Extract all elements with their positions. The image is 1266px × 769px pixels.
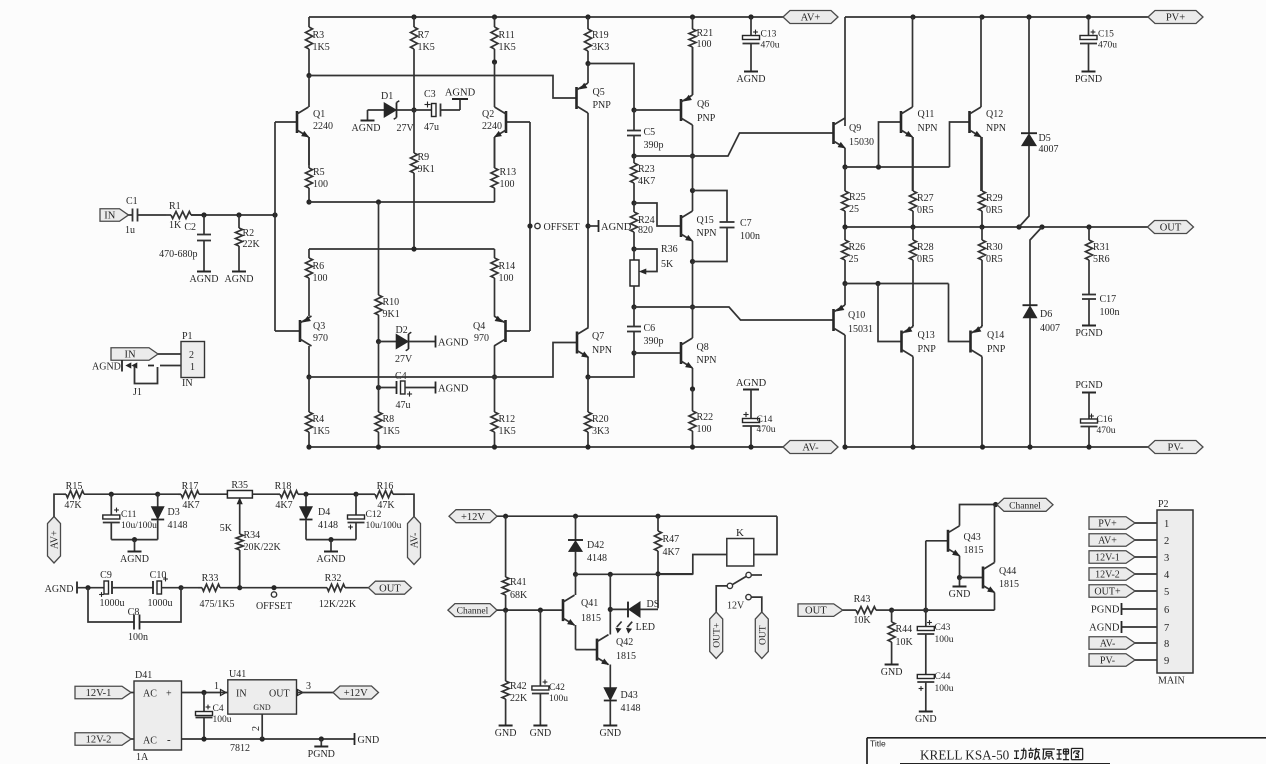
svg-text:U41: U41 bbox=[229, 669, 246, 680]
svg-text:AGND: AGND bbox=[737, 74, 766, 85]
svg-text:100: 100 bbox=[313, 273, 328, 284]
svg-text:10K: 10K bbox=[896, 637, 914, 648]
svg-text:PNP: PNP bbox=[697, 113, 716, 124]
svg-text:R34: R34 bbox=[244, 530, 261, 541]
svg-text:68K: 68K bbox=[510, 590, 528, 601]
svg-text:R41: R41 bbox=[510, 577, 527, 588]
svg-text:Q3: Q3 bbox=[313, 321, 325, 332]
svg-text:4148: 4148 bbox=[587, 553, 607, 564]
svg-text:0R5: 0R5 bbox=[986, 254, 1003, 265]
svg-text:Q7: Q7 bbox=[592, 331, 604, 342]
svg-text:C11: C11 bbox=[121, 510, 137, 520]
svg-text:C44: C44 bbox=[935, 672, 951, 682]
svg-text:R25: R25 bbox=[849, 192, 866, 203]
svg-text:22K: 22K bbox=[510, 693, 528, 704]
svg-text:12V-2: 12V-2 bbox=[1095, 570, 1120, 581]
svg-text:+: + bbox=[166, 689, 172, 700]
svg-text:Q11: Q11 bbox=[918, 109, 935, 120]
svg-text:R13: R13 bbox=[500, 167, 517, 178]
svg-text:PV+: PV+ bbox=[1166, 13, 1185, 24]
svg-text:1K5: 1K5 bbox=[313, 42, 330, 53]
svg-text:R15: R15 bbox=[66, 481, 83, 492]
svg-text:Channel: Channel bbox=[1009, 501, 1041, 511]
svg-text:47K: 47K bbox=[64, 500, 82, 511]
svg-text:R8: R8 bbox=[383, 414, 395, 425]
svg-text:1000u: 1000u bbox=[100, 598, 125, 609]
svg-text:GND: GND bbox=[949, 589, 971, 600]
svg-text:27V: 27V bbox=[397, 123, 415, 134]
svg-text:R6: R6 bbox=[313, 261, 325, 272]
svg-text:1815: 1815 bbox=[581, 613, 601, 624]
svg-text:OUT+: OUT+ bbox=[1094, 587, 1121, 598]
svg-text:OUT: OUT bbox=[379, 583, 401, 594]
svg-text:Channel: Channel bbox=[457, 607, 489, 617]
svg-text:OUT+: OUT+ bbox=[713, 623, 723, 648]
svg-text:AV-: AV- bbox=[1100, 639, 1116, 650]
svg-text:C13: C13 bbox=[761, 30, 777, 40]
svg-text:C1: C1 bbox=[126, 196, 138, 207]
svg-text:C16: C16 bbox=[1097, 415, 1113, 425]
svg-text:D5: D5 bbox=[1039, 133, 1051, 144]
svg-text:4007: 4007 bbox=[1039, 144, 1059, 155]
svg-text:D2: D2 bbox=[396, 325, 408, 336]
svg-text:LED: LED bbox=[636, 622, 655, 633]
svg-text:470u: 470u bbox=[1097, 426, 1116, 436]
svg-text:8: 8 bbox=[1164, 639, 1169, 650]
svg-text:0R5: 0R5 bbox=[986, 205, 1003, 216]
svg-text:OFFSET: OFFSET bbox=[256, 601, 292, 612]
svg-text:3: 3 bbox=[306, 681, 311, 692]
svg-text:R21: R21 bbox=[697, 28, 714, 39]
svg-text:5: 5 bbox=[1164, 587, 1169, 598]
svg-text:12V: 12V bbox=[727, 601, 745, 612]
svg-text:OFFSET: OFFSET bbox=[544, 222, 580, 233]
svg-text:R35: R35 bbox=[231, 480, 248, 491]
svg-text:AGND: AGND bbox=[45, 584, 74, 595]
svg-text:NPN: NPN bbox=[697, 355, 717, 366]
svg-text:AGND: AGND bbox=[736, 378, 767, 389]
svg-text:970: 970 bbox=[313, 333, 328, 344]
svg-text:D6: D6 bbox=[1040, 309, 1052, 320]
svg-text:Q12: Q12 bbox=[986, 109, 1003, 120]
svg-text:22K: 22K bbox=[243, 239, 261, 250]
svg-text:1u: 1u bbox=[125, 225, 135, 236]
svg-text:2240: 2240 bbox=[313, 121, 333, 132]
svg-text:GND: GND bbox=[915, 714, 937, 725]
svg-text:PGND: PGND bbox=[1075, 380, 1102, 391]
svg-text:470u: 470u bbox=[1098, 41, 1117, 51]
svg-text:100u: 100u bbox=[549, 694, 568, 704]
svg-text:AV+: AV+ bbox=[801, 13, 821, 24]
svg-text:7812: 7812 bbox=[230, 743, 250, 754]
svg-text:NPN: NPN bbox=[697, 228, 717, 239]
svg-text:1815: 1815 bbox=[999, 579, 1019, 590]
svg-text:IN: IN bbox=[104, 211, 115, 222]
svg-text:GND: GND bbox=[530, 728, 552, 739]
svg-text:1815: 1815 bbox=[616, 651, 636, 662]
svg-text:GND: GND bbox=[358, 735, 380, 746]
svg-text:AGND: AGND bbox=[92, 362, 121, 373]
svg-text:C15: C15 bbox=[1098, 30, 1114, 40]
svg-text:Q15: Q15 bbox=[697, 215, 714, 226]
svg-text:15031: 15031 bbox=[848, 324, 873, 335]
svg-text:3K3: 3K3 bbox=[592, 426, 609, 437]
svg-text:12V-1: 12V-1 bbox=[1095, 553, 1120, 564]
svg-text:D1: D1 bbox=[381, 91, 393, 102]
svg-text:Q10: Q10 bbox=[848, 310, 865, 321]
svg-text:1K: 1K bbox=[169, 220, 182, 231]
svg-text:12V-1: 12V-1 bbox=[86, 688, 112, 699]
svg-text:GND: GND bbox=[881, 667, 903, 678]
svg-text:C12: C12 bbox=[366, 510, 382, 520]
svg-text:4K7: 4K7 bbox=[275, 500, 292, 511]
svg-text:R32: R32 bbox=[325, 573, 342, 584]
svg-text:D4: D4 bbox=[318, 507, 330, 518]
svg-text:5K: 5K bbox=[220, 523, 233, 534]
svg-text:KRELL KSA-50: KRELL KSA-50 bbox=[920, 748, 1010, 763]
svg-text:2: 2 bbox=[1164, 536, 1169, 547]
svg-text:100n: 100n bbox=[740, 231, 760, 242]
svg-text:2: 2 bbox=[189, 350, 194, 361]
svg-text:R36: R36 bbox=[661, 244, 678, 255]
svg-text:4148: 4148 bbox=[168, 520, 188, 531]
svg-text:1815: 1815 bbox=[964, 545, 984, 556]
svg-text:D3: D3 bbox=[168, 507, 180, 518]
svg-text:12V-2: 12V-2 bbox=[86, 735, 112, 746]
svg-text:D43: D43 bbox=[621, 690, 638, 701]
svg-text:AV+: AV+ bbox=[1098, 536, 1117, 547]
svg-text:Q2: Q2 bbox=[482, 109, 494, 120]
svg-text:AGND: AGND bbox=[352, 123, 381, 134]
svg-text:970: 970 bbox=[474, 333, 489, 344]
svg-text:470u: 470u bbox=[757, 425, 776, 435]
svg-text:J1: J1 bbox=[133, 387, 142, 398]
svg-text:R11: R11 bbox=[499, 30, 515, 41]
svg-text:AGND: AGND bbox=[190, 274, 219, 285]
svg-text:390p: 390p bbox=[644, 336, 664, 347]
svg-text:R43: R43 bbox=[854, 594, 871, 605]
svg-text:25: 25 bbox=[849, 254, 859, 265]
svg-text:R16: R16 bbox=[377, 481, 394, 492]
svg-text:R42: R42 bbox=[510, 681, 527, 692]
svg-text:9: 9 bbox=[1164, 656, 1169, 667]
svg-text:AGND: AGND bbox=[438, 337, 469, 348]
svg-text:5R6: 5R6 bbox=[1093, 254, 1110, 265]
svg-text:27V: 27V bbox=[395, 354, 413, 365]
svg-text:R5: R5 bbox=[313, 167, 325, 178]
svg-text:AV-: AV- bbox=[410, 533, 421, 549]
svg-text:4: 4 bbox=[1164, 570, 1170, 581]
svg-text:4K7: 4K7 bbox=[182, 500, 199, 511]
svg-text:47u: 47u bbox=[396, 400, 411, 411]
svg-text:IN: IN bbox=[182, 378, 193, 389]
svg-text:R2: R2 bbox=[243, 228, 255, 239]
svg-text:PGND: PGND bbox=[1075, 74, 1102, 85]
svg-text:R29: R29 bbox=[986, 193, 1003, 204]
svg-text:PGND: PGND bbox=[1091, 605, 1120, 616]
svg-text:R4: R4 bbox=[313, 414, 325, 425]
svg-text:4148: 4148 bbox=[621, 703, 641, 714]
svg-text:C4: C4 bbox=[213, 704, 224, 714]
svg-text:100u: 100u bbox=[935, 684, 954, 694]
svg-text:R27: R27 bbox=[917, 193, 934, 204]
svg-text:R14: R14 bbox=[499, 261, 516, 272]
svg-text:470u: 470u bbox=[761, 41, 780, 51]
svg-text:C9: C9 bbox=[100, 570, 112, 581]
svg-text:4007: 4007 bbox=[1040, 323, 1060, 334]
svg-text:D42: D42 bbox=[587, 540, 604, 551]
svg-text:PNP: PNP bbox=[593, 100, 612, 111]
svg-text:4K7: 4K7 bbox=[663, 547, 680, 558]
svg-text:AV-: AV- bbox=[802, 443, 819, 454]
svg-text:R12: R12 bbox=[499, 414, 516, 425]
svg-text:Q6: Q6 bbox=[697, 99, 709, 110]
svg-text:1: 1 bbox=[190, 362, 195, 373]
svg-text:R30: R30 bbox=[986, 242, 1003, 253]
svg-text:C7: C7 bbox=[740, 218, 752, 229]
svg-text:1K5: 1K5 bbox=[383, 426, 400, 437]
svg-text:R17: R17 bbox=[182, 481, 199, 492]
svg-text:R47: R47 bbox=[663, 534, 680, 545]
svg-text:AGND: AGND bbox=[317, 554, 346, 565]
svg-text:AGND: AGND bbox=[438, 383, 469, 394]
svg-text:C8: C8 bbox=[128, 607, 140, 618]
svg-text:1K5: 1K5 bbox=[499, 42, 516, 53]
svg-text:-: - bbox=[167, 734, 171, 746]
svg-text:1A: 1A bbox=[136, 752, 149, 763]
svg-text:Q8: Q8 bbox=[697, 342, 709, 353]
svg-text:DS: DS bbox=[647, 599, 660, 610]
svg-text:OUT: OUT bbox=[805, 606, 827, 617]
svg-text:NPN: NPN bbox=[592, 345, 612, 356]
svg-text:R1: R1 bbox=[169, 201, 181, 212]
svg-text:R44: R44 bbox=[896, 624, 913, 635]
svg-text:R7: R7 bbox=[418, 30, 430, 41]
svg-text:Q9: Q9 bbox=[849, 123, 861, 134]
svg-text:3: 3 bbox=[1164, 553, 1169, 564]
svg-text:C14: C14 bbox=[757, 415, 773, 425]
svg-text:Q13: Q13 bbox=[918, 330, 935, 341]
svg-text:100u: 100u bbox=[935, 635, 954, 645]
svg-text:Q4: Q4 bbox=[473, 321, 485, 332]
svg-text:100u: 100u bbox=[213, 715, 232, 725]
svg-text:100: 100 bbox=[499, 273, 514, 284]
svg-text:R19: R19 bbox=[592, 30, 609, 41]
svg-text:C10: C10 bbox=[150, 570, 167, 581]
svg-text:OUT: OUT bbox=[269, 689, 290, 700]
svg-text:Q14: Q14 bbox=[987, 330, 1004, 341]
svg-text:1K5: 1K5 bbox=[418, 42, 435, 53]
svg-text:Q5: Q5 bbox=[593, 87, 605, 98]
svg-text:6: 6 bbox=[1164, 605, 1169, 616]
svg-text:100n: 100n bbox=[128, 632, 148, 643]
svg-text:47u: 47u bbox=[424, 122, 439, 133]
svg-text:12K/22K: 12K/22K bbox=[319, 599, 357, 610]
svg-text:AGND: AGND bbox=[445, 88, 476, 99]
svg-text:4K7: 4K7 bbox=[638, 176, 655, 187]
svg-text:PNP: PNP bbox=[987, 344, 1006, 355]
svg-text:R28: R28 bbox=[917, 242, 934, 253]
svg-text:AGND: AGND bbox=[225, 274, 254, 285]
svg-text:R9: R9 bbox=[418, 152, 430, 163]
svg-text:0R5: 0R5 bbox=[917, 254, 934, 265]
svg-text:1K5: 1K5 bbox=[313, 426, 330, 437]
svg-text:R22: R22 bbox=[697, 412, 714, 423]
svg-text:PGND: PGND bbox=[1075, 328, 1102, 339]
svg-text:4148: 4148 bbox=[318, 520, 338, 531]
svg-text:PV-: PV- bbox=[1100, 656, 1115, 667]
svg-text:OUT: OUT bbox=[758, 625, 768, 645]
svg-text:1000u: 1000u bbox=[148, 598, 173, 609]
svg-text:10K: 10K bbox=[853, 615, 871, 626]
svg-text:7: 7 bbox=[1164, 623, 1169, 634]
svg-text:2240: 2240 bbox=[482, 121, 502, 132]
svg-text:C43: C43 bbox=[935, 623, 951, 633]
svg-text:100: 100 bbox=[697, 39, 712, 50]
svg-text:+12V: +12V bbox=[461, 512, 485, 523]
svg-text:C6: C6 bbox=[644, 323, 656, 334]
svg-text:NPN: NPN bbox=[918, 123, 938, 134]
svg-text:3K3: 3K3 bbox=[592, 42, 609, 53]
svg-text:PV+: PV+ bbox=[1098, 519, 1117, 530]
svg-text:GND: GND bbox=[495, 728, 517, 739]
svg-text:R26: R26 bbox=[849, 242, 866, 253]
svg-text:0R5: 0R5 bbox=[917, 205, 934, 216]
svg-text:AC: AC bbox=[143, 736, 157, 747]
svg-text:K: K bbox=[736, 527, 744, 539]
svg-text:P1: P1 bbox=[182, 331, 193, 342]
svg-text:2: 2 bbox=[251, 726, 262, 731]
svg-text:C42: C42 bbox=[549, 683, 565, 693]
svg-text:MAIN: MAIN bbox=[1158, 676, 1185, 687]
svg-text:AGND: AGND bbox=[120, 554, 149, 565]
svg-text:OUT: OUT bbox=[1160, 223, 1182, 234]
svg-text:AGND: AGND bbox=[1089, 623, 1120, 634]
svg-text:NPN: NPN bbox=[986, 123, 1006, 134]
svg-text:C3: C3 bbox=[424, 89, 436, 100]
svg-text:390p: 390p bbox=[644, 140, 664, 151]
svg-text:D41: D41 bbox=[135, 670, 152, 681]
svg-text:+12V: +12V bbox=[344, 688, 368, 699]
svg-text:GND: GND bbox=[599, 728, 621, 739]
svg-text:R31: R31 bbox=[1093, 242, 1110, 253]
svg-text:9K1: 9K1 bbox=[383, 309, 400, 320]
svg-text:R10: R10 bbox=[383, 297, 400, 308]
svg-text:AC: AC bbox=[143, 689, 157, 700]
svg-text:GND: GND bbox=[253, 703, 271, 712]
svg-text:IN: IN bbox=[236, 689, 247, 700]
svg-text:100: 100 bbox=[313, 179, 328, 190]
svg-text:470-680p: 470-680p bbox=[159, 249, 197, 260]
svg-text:R3: R3 bbox=[313, 30, 325, 41]
svg-text:Q44: Q44 bbox=[999, 566, 1016, 577]
svg-text:R23: R23 bbox=[638, 164, 655, 175]
svg-text:Title: Title bbox=[870, 739, 886, 749]
svg-text:IN: IN bbox=[124, 350, 135, 361]
svg-text:1K5: 1K5 bbox=[499, 426, 516, 437]
svg-text:R18: R18 bbox=[275, 481, 292, 492]
svg-text:5K: 5K bbox=[661, 259, 674, 270]
svg-text:475/1K5: 475/1K5 bbox=[200, 599, 235, 610]
svg-text:25: 25 bbox=[849, 204, 859, 215]
svg-text:R20: R20 bbox=[592, 414, 609, 425]
svg-text:9K1: 9K1 bbox=[418, 164, 435, 175]
svg-text:Q43: Q43 bbox=[964, 532, 981, 543]
svg-text:PV-: PV- bbox=[1168, 443, 1184, 454]
svg-text:PGND: PGND bbox=[308, 749, 335, 760]
svg-text:P2: P2 bbox=[1158, 499, 1169, 510]
svg-text:10u/100u: 10u/100u bbox=[121, 521, 157, 531]
svg-text:C17: C17 bbox=[1100, 294, 1117, 305]
svg-text:C2: C2 bbox=[184, 222, 196, 233]
svg-text:20K/22K: 20K/22K bbox=[244, 542, 282, 553]
svg-text:AV+: AV+ bbox=[50, 530, 61, 549]
svg-text:C5: C5 bbox=[644, 127, 656, 138]
svg-text:Q1: Q1 bbox=[313, 109, 325, 120]
svg-text:Q42: Q42 bbox=[616, 637, 633, 648]
svg-text:100n: 100n bbox=[1100, 307, 1120, 318]
svg-text:10u/100u: 10u/100u bbox=[366, 521, 402, 531]
svg-text:15030: 15030 bbox=[849, 137, 874, 148]
svg-text:AGND: AGND bbox=[601, 222, 632, 233]
svg-text:1: 1 bbox=[1164, 519, 1169, 530]
svg-text:100: 100 bbox=[697, 424, 712, 435]
svg-text:R33: R33 bbox=[202, 573, 219, 584]
svg-text:PNP: PNP bbox=[918, 344, 937, 355]
svg-text:Q41: Q41 bbox=[581, 598, 598, 609]
svg-text:1: 1 bbox=[214, 681, 219, 692]
svg-text:820: 820 bbox=[638, 225, 653, 236]
svg-text:100: 100 bbox=[500, 179, 515, 190]
